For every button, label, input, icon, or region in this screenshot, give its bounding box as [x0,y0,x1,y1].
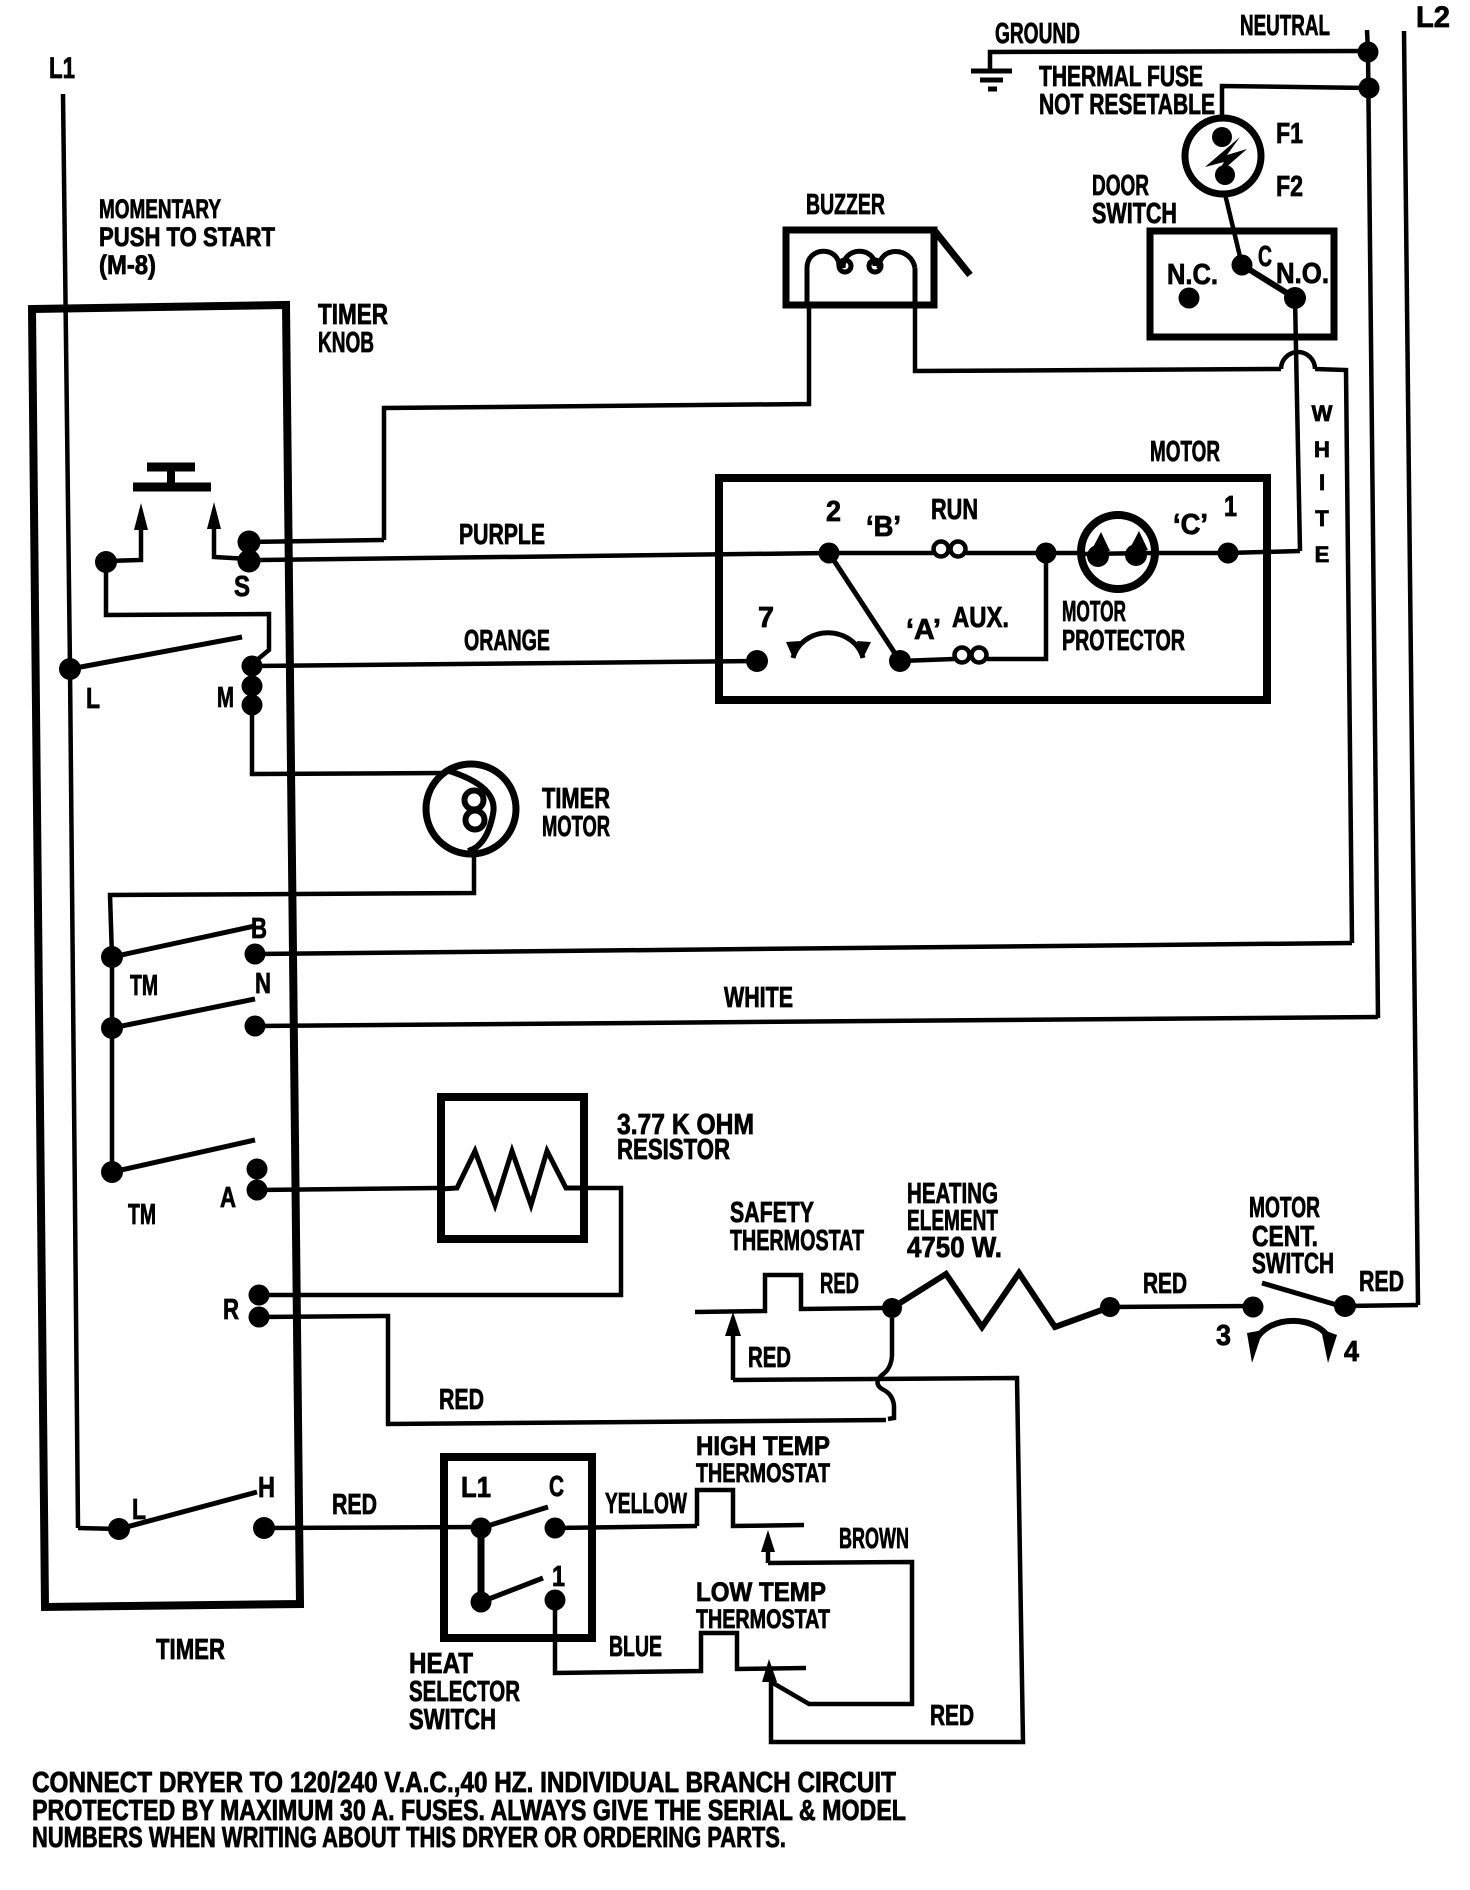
wire WHITE from N to neutral [255,1017,1378,1026]
low temp sensor arrow [769,1680,774,1690]
wire bypass loop to low temp [733,1378,1023,1742]
wire neutral to thermal fuse [1222,86,1369,118]
wire BLUE from contact 1 [555,1600,806,1673]
svg-text:L2: L2 [1416,1,1450,34]
wire N.O. down to motor (WHITE) [1295,298,1300,551]
contact B dot [245,944,266,965]
svg-text:NUMBERS WHEN WRITING ABOUT THI: NUMBERS WHEN WRITING ABOUT THIS DRYER OR… [32,1822,786,1854]
contact L1 dot [471,1518,492,1539]
motor box U1 [719,478,1267,700]
contact 1 dot [545,1590,566,1611]
wire L1 feed down left side [63,94,78,1528]
wire L to bottom L contact [78,1528,119,1529]
wire B contact long horizontal [255,943,1352,954]
svg-text:THERMOSTAT: THERMOSTAT [730,1225,864,1257]
wire contact 4 to L2 [1345,1305,1418,1306]
svg-text:‘B’: ‘B’ [866,511,901,543]
svg-text:‘A’: ‘A’ [906,614,941,646]
wire M down to timer motor [252,705,445,774]
contact dot left of push switch [95,551,117,573]
contact TM dot (upper) [101,946,123,968]
wire BROWN high temp to low temp [768,1562,912,1704]
label WHITE vertical [1312,401,1333,567]
wire element to switch contact 3 [1110,1306,1253,1307]
svg-text:PROTECTOR: PROTECTOR [1062,625,1185,657]
contact L dot (bottom) [108,1518,130,1540]
svg-text:‘C’: ‘C’ [1173,509,1208,541]
svg-text:7: 7 [758,602,774,634]
contact S dots [238,531,261,554]
svg-text:C: C [1258,241,1272,273]
svg-text:B: B [251,913,267,945]
svg-text:BROWN: BROWN [839,1523,909,1555]
contact dot left N [101,1017,123,1039]
svg-text:L1: L1 [461,1472,491,1504]
safety thermostat sensor arrow [731,1332,736,1380]
svg-text:TIMER: TIMER [156,1634,225,1666]
timer motor coil circles [465,791,484,810]
svg-text:RED: RED [1143,1268,1187,1300]
svg-text:RED: RED [748,1342,791,1374]
svg-text:N.C.: N.C. [1167,259,1218,291]
contact 3 dot [1243,1297,1264,1318]
wire YELLOW from C [555,1526,697,1528]
motor protector contacts [1083,553,1153,554]
push button right arrow [214,527,249,559]
timer switch arm L to M [70,637,242,669]
buzzer striker arm [934,230,970,275]
svg-text:F2: F2 [1276,171,1303,203]
wire fuse to door switch C [1225,194,1242,265]
wire NEUTRAL vertical [1367,30,1378,1018]
svg-text:WHITE: WHITE [724,982,793,1014]
run winding [829,542,1046,557]
timer switch arm to N [112,999,255,1028]
svg-text:GROUND: GROUND [995,18,1080,50]
selector arm common to 1 [481,1578,543,1602]
wire resistor to R contact [268,1188,621,1295]
wire buzzer left pin to S contact [384,305,809,540]
svg-text:SWITCH: SWITCH [409,1704,496,1736]
wire buzzer right pin toward B (with hop) [915,305,1281,371]
wire hop over white wire [1281,352,1315,369]
junction dot heating element left [882,1298,902,1318]
door switch arm C to N.O. [1242,265,1295,298]
wire A to resistor [257,1188,438,1190]
contact TM dot (lower) [101,1161,123,1183]
heat selector switch box [444,1457,592,1638]
svg-text:RED: RED [1359,1266,1404,1298]
wire push switch to M contacts [106,562,269,664]
svg-text:4: 4 [1344,1336,1359,1368]
contact A dot [889,650,911,672]
timer switch arm TM to B [112,926,255,957]
selector arm L1 to C [481,1507,548,1528]
motor protector circle [1081,515,1155,589]
swing arrow arc between 7 and A [793,633,863,658]
wire timer motor to TM contacts [110,853,474,957]
svg-text:C: C [549,1471,564,1503]
svg-text:I: I [1319,470,1325,495]
wire S upper to buzzer riser [249,540,384,542]
svg-text:AUX.: AUX. [952,602,1009,634]
wire RED from R to safety thermostat junction [259,1316,886,1424]
wire continue to corner and down [1315,369,1352,943]
wire RED from H to heat selector [264,1527,481,1528]
svg-text:3: 3 [1216,1320,1231,1352]
svg-text:1: 1 [552,1561,565,1593]
svg-text:S: S [234,571,250,603]
svg-text:H: H [258,1472,275,1504]
svg-text:MOTOR: MOTOR [1062,596,1126,628]
wire PURPLE from S to motor terminal 2 [260,553,829,560]
door switch box [1150,231,1334,337]
high temp thermostat blade [697,1490,804,1526]
svg-text:PUSH TO START: PUSH TO START [99,222,275,252]
contact L dot [59,658,81,680]
buzzer coil [807,251,915,305]
svg-text:T: T [1315,506,1329,531]
terminal 1 dot [1218,543,1239,564]
red wire squiggle crossing [878,1318,895,1419]
svg-text:RED: RED [439,1384,484,1416]
junction neutral-fuse [1359,78,1380,99]
svg-text:R: R [223,1294,239,1326]
high temp sensor arrow [766,1550,771,1563]
contact H dot [253,1517,275,1539]
heating element 4750W zigzag [892,1273,1110,1327]
pin F1 dot [1212,127,1232,147]
svg-text:PURPLE: PURPLE [459,519,545,551]
contact N dot [245,1016,266,1037]
junction dot run/aux [1036,543,1057,564]
svg-text:E: E [1315,542,1330,567]
timer motor circle [426,764,516,854]
svg-text:4750 W.: 4750 W. [907,1232,1002,1264]
wire ground to neutral [990,51,1368,70]
wire between TM contacts [110,957,115,1172]
svg-text:BLUE: BLUE [609,1631,662,1663]
svg-text:RED: RED [332,1489,377,1521]
wire junction to terminal 1 [1046,551,1228,556]
selector common bar [478,1528,485,1602]
svg-text:MOMENTARY: MOMENTARY [99,194,221,224]
svg-text:RUN: RUN [931,494,978,526]
svg-text:MOTOR: MOTOR [542,811,610,843]
contact N.O. dot [1284,287,1306,309]
svg-text:L1: L1 [49,52,75,85]
svg-text:NOT RESETABLE: NOT RESETABLE [1039,89,1215,121]
svg-text:ORANGE: ORANGE [464,625,550,657]
contact R dots [249,1285,270,1306]
svg-text:LOW TEMP: LOW TEMP [696,1577,826,1607]
svg-text:W: W [1312,401,1333,426]
timer switch arm TM to A [112,1140,255,1172]
timer box [32,305,300,1607]
motor switch arm 2 to A [829,553,900,661]
contact C dot [1232,255,1253,276]
svg-text:RED: RED [820,1268,859,1300]
fuse lightning bolt [1205,137,1247,177]
svg-text:H: H [1314,437,1330,462]
svg-text:N: N [255,968,271,1000]
contact M dots [242,656,263,677]
contact N.C. dot [1179,288,1200,309]
timer switch arm L to H [119,1492,257,1529]
wire terminal 1 to white wire [1228,551,1300,553]
svg-text:HIGH TEMP: HIGH TEMP [696,1431,830,1461]
svg-text:N.O.: N.O. [1276,258,1329,290]
contact C dot [545,1518,566,1539]
svg-text:A: A [220,1182,236,1214]
svg-text:BUZZER: BUZZER [806,189,885,221]
resistor R1 zigzag [441,1151,584,1205]
svg-text:2: 2 [826,496,841,528]
svg-text:RESISTOR: RESISTOR [617,1134,730,1166]
thermal fuse F1/F2 circle [1185,118,1261,194]
swing arrow arc 3-4 [1256,1321,1330,1340]
contact 4 dot [1334,1295,1356,1317]
svg-text:1: 1 [1224,491,1237,523]
resistor R1 box [441,1097,584,1239]
terminal 7 dot [746,650,768,672]
wire ORANGE from M to terminal 7 [252,661,757,666]
push-to-start button plunger [133,467,211,487]
wire L2 vertical [1404,31,1418,1305]
svg-text:SWITCH: SWITCH [1252,1248,1334,1280]
svg-text:YELLOW: YELLOW [605,1488,687,1520]
safety thermostat contact blade [695,1275,884,1312]
svg-text:THERMOSTAT: THERMOSTAT [696,1604,830,1634]
buzzer box [786,230,934,305]
contact A dots [247,1159,268,1180]
terminal 2 dot [819,543,840,564]
svg-text:(M-8): (M-8) [99,250,156,280]
svg-text:TM: TM [130,970,158,1002]
push button left arrow [106,527,141,561]
timer motor inner arc [446,770,494,851]
junction dot heating element right [1100,1297,1120,1317]
junction neutral-ground [1358,42,1379,63]
svg-text:THERMOSTAT: THERMOSTAT [696,1458,830,1488]
svg-text:RED: RED [930,1700,974,1732]
contact common dot [471,1592,492,1613]
svg-text:NEUTRAL: NEUTRAL [1240,10,1330,42]
svg-text:L: L [86,683,100,715]
svg-text:SWITCH: SWITCH [1092,198,1177,230]
ground symbol [971,71,1012,89]
pin F2 dot [1215,165,1235,185]
motor cent switch arm [1262,1283,1337,1305]
svg-text:M: M [217,682,234,714]
aux winding [900,553,1046,663]
svg-text:F1: F1 [1276,118,1303,150]
svg-text:KNOB: KNOB [318,327,374,359]
svg-text:TM: TM [128,1199,156,1231]
svg-text:MOTOR: MOTOR [1249,1192,1320,1224]
svg-text:MOTOR: MOTOR [1150,436,1220,468]
